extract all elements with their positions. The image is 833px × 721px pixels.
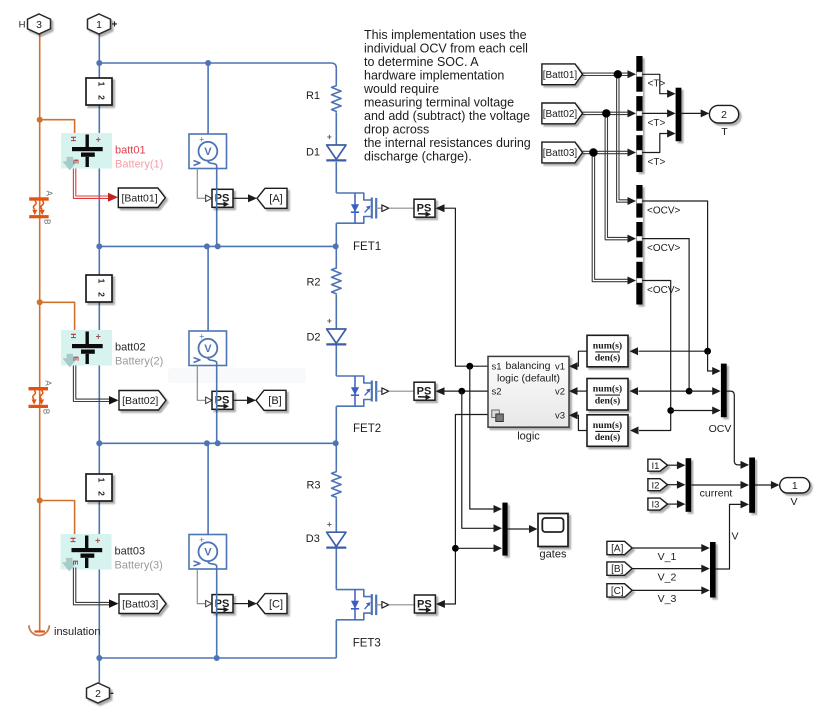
svg-text:Battery(1): Battery(1) [115,159,163,171]
svg-text:insulation: insulation [54,626,100,638]
svg-text:PS: PS [417,598,432,610]
svg-text:v2: v2 [555,386,565,397]
svg-text:I1: I1 [651,461,659,472]
svg-text:<OCV>: <OCV> [647,285,681,296]
svg-text:discharge (charge).: discharge (charge). [364,150,472,164]
svg-text:+: + [96,134,101,144]
svg-text:A: A [44,191,53,197]
svg-text:A: A [44,380,53,386]
svg-text:H: H [68,537,77,542]
svg-text:<T>: <T> [648,157,666,168]
svg-text:V: V [204,343,212,355]
svg-text:den(s): den(s) [595,432,621,443]
svg-text:[B]: [B] [611,564,623,575]
svg-text:+: + [96,331,101,341]
svg-text:[B]: [B] [268,395,281,407]
svg-text:den(s): den(s) [595,353,621,364]
svg-text:V: V [204,146,212,158]
svg-text:E: E [71,560,80,565]
svg-text:num(s): num(s) [593,341,622,352]
svg-text:+: + [327,132,332,142]
svg-text:num(s): num(s) [593,384,622,395]
svg-text:1: 1 [96,19,102,31]
svg-text:[C]: [C] [269,598,283,610]
svg-text:to determine SOC. A: to determine SOC. A [364,55,479,69]
svg-text:PS: PS [417,203,432,215]
svg-text:Battery(2): Battery(2) [115,356,163,368]
svg-text:B: B [42,409,51,414]
svg-text:This implementation uses the: This implementation uses the [364,28,527,42]
svg-text:I3: I3 [651,500,659,511]
svg-text:V: V [732,531,739,543]
svg-text:R2: R2 [306,277,320,289]
svg-text:hardware implementation: hardware implementation [364,69,504,83]
svg-text:gates: gates [540,548,567,560]
svg-text:2: 2 [97,95,107,100]
svg-text:[Batt01]: [Batt01] [543,70,578,81]
svg-text:H: H [69,333,78,338]
svg-text:H: H [69,136,78,141]
svg-text:num(s): num(s) [593,420,622,431]
svg-text:D2: D2 [306,332,320,344]
svg-text:V_3: V_3 [658,593,677,605]
svg-text:1: 1 [97,82,107,87]
svg-text:V: V [790,496,797,508]
svg-text:3: 3 [36,19,42,31]
svg-text:2: 2 [97,292,107,297]
svg-text:<T>: <T> [648,79,666,90]
svg-text:balancing: balancing [506,360,551,372]
svg-text:[A]: [A] [269,193,282,205]
svg-text:V: V [204,547,212,559]
svg-text:R1: R1 [306,90,320,102]
svg-text:den(s): den(s) [595,396,621,407]
svg-text:FET3: FET3 [353,638,381,650]
svg-text:E: E [71,159,80,164]
svg-text:FET1: FET1 [353,241,381,253]
svg-text:[A]: [A] [611,544,623,555]
svg-text:I2: I2 [651,480,659,491]
svg-text:PS: PS [417,386,432,398]
svg-text:D1: D1 [306,146,320,158]
svg-text:[Batt03]: [Batt03] [543,148,578,159]
svg-text:drop across: drop across [364,123,429,137]
svg-text:V_2: V_2 [658,571,677,583]
svg-text:<T>: <T> [648,118,666,129]
svg-text:2: 2 [721,109,727,121]
svg-text:the internal resistances durin: the internal resistances during [364,136,531,150]
svg-text:v1: v1 [555,362,565,373]
svg-text:batt02: batt02 [115,342,146,354]
svg-text:1: 1 [792,480,798,492]
svg-text:2: 2 [95,688,101,700]
svg-text:Battery(3): Battery(3) [115,560,163,572]
svg-text:would require: would require [363,82,439,96]
svg-text:E: E [71,356,80,361]
svg-text:batt01: batt01 [115,145,146,157]
svg-text:R3: R3 [306,480,320,492]
svg-text:+: + [95,535,100,545]
svg-text:measuring terminal voltage: measuring terminal voltage [364,96,514,110]
svg-text:batt03: batt03 [115,546,146,558]
svg-text:+: + [327,519,332,529]
svg-text:-: - [110,687,114,699]
svg-text:T: T [721,126,728,138]
svg-text:[Batt02]: [Batt02] [543,109,578,120]
svg-text:logic (default): logic (default) [497,372,560,384]
svg-text:1: 1 [97,279,107,284]
svg-text:+: + [327,316,332,326]
svg-text:individual OCV from each cell: individual OCV from each cell [364,42,528,56]
svg-text:B: B [42,219,51,224]
svg-text:[Batt03]: [Batt03] [122,598,158,610]
svg-text:[C]: [C] [611,586,624,597]
svg-text:+: + [112,20,118,31]
svg-text:current: current [700,487,733,499]
svg-text:2: 2 [97,491,107,496]
svg-text:s2: s2 [492,386,502,397]
svg-text:V_1: V_1 [658,551,677,563]
svg-text:v3: v3 [555,410,565,421]
svg-text:s1: s1 [492,362,502,373]
svg-text:[Batt01]: [Batt01] [121,192,157,204]
svg-text:OCV: OCV [709,423,732,435]
svg-text:H: H [19,20,26,31]
svg-text:<OCV>: <OCV> [647,206,681,217]
svg-text:and add (subtract) the voltage: and add (subtract) the voltage [364,109,530,123]
svg-text:1: 1 [97,478,107,483]
svg-text:FET2: FET2 [353,423,381,435]
svg-text:[Batt02]: [Batt02] [122,395,158,407]
svg-text:logic: logic [517,431,540,443]
svg-text:<OCV>: <OCV> [647,243,681,254]
svg-text:D3: D3 [306,533,320,545]
